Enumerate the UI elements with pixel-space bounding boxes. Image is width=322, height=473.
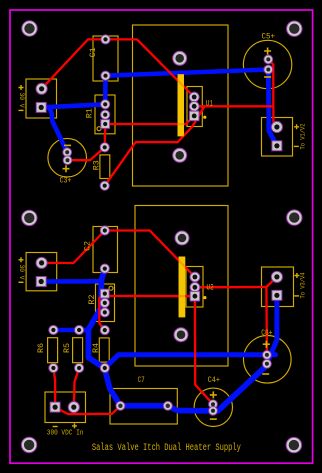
capacitor C2 outline (93, 227, 118, 273)
svg-text:C4+: C4+ (208, 375, 220, 385)
heatsink bar U1 (178, 74, 185, 136)
pad V1V2 pin+ (271, 121, 282, 132)
svg-text:30 V: 30 V (18, 93, 25, 108)
pad R4 bottom (100, 363, 109, 372)
svg-text:R5: R5 (62, 343, 72, 353)
pad U1 pin1 (189, 92, 199, 102)
transformer T1 outline (133, 25, 229, 186)
label C3 minus mark (64, 144, 71, 146)
resistor R6 outline (48, 338, 58, 363)
resistor R3 outline (100, 155, 110, 179)
transformer T1 hole lower (173, 148, 187, 162)
wire C2- down through R2 to R4 top junction (88, 269, 121, 406)
resistor R4 outline (99, 338, 109, 362)
wire R2 wiper down to R4 top (99, 294, 105, 331)
transformer T1 hole upper (173, 51, 187, 65)
wire 300VDC- to C7 left (55, 406, 120, 414)
pad R1 pin1 (101, 100, 110, 109)
wire U2 pin2 to V3/V4+ and C6+ (195, 277, 277, 287)
pad R4 top (100, 326, 109, 335)
pad R6 top (49, 325, 58, 334)
label J2 plus (19, 257, 24, 262)
pad U2 pin2 (190, 282, 200, 292)
wire J1- branch to C3+ (49, 108, 67, 153)
wire U1 pin2 to V1/V2+ (194, 106, 277, 127)
wire C4 pad2 to C6 pad2 (213, 364, 267, 411)
connector To V1/V2 outline (262, 118, 293, 157)
svg-text:R1: R1 (85, 108, 95, 118)
svg-text:U2: U2 (207, 283, 214, 293)
pad U2 pin1 (190, 272, 200, 282)
wire V3/V4- down to C6 pad2 (267, 295, 277, 364)
label C5 plus mark (264, 48, 271, 55)
pad C6 pin2 (263, 359, 272, 368)
pad C4 pin1 (209, 400, 218, 409)
svg-text:C7: C7 (138, 375, 145, 385)
wire J1+ to C1+ to U1 pin1 (42, 39, 195, 97)
pad R1 pin2 (101, 110, 110, 119)
label C3 plus mark (63, 165, 70, 172)
svg-text:R3: R3 (92, 160, 102, 170)
pad C3 pin2 (63, 156, 72, 165)
polarity marks drawn as strokes (19, 85, 300, 428)
pad V3V4 pin- square (272, 290, 282, 300)
wire R1 wiper to U1 pin3 (105, 116, 194, 124)
svg-text:R4: R4 (91, 343, 101, 353)
connector J2 30V outline (26, 253, 57, 291)
pin1 mark R2 (109, 286, 113, 290)
svg-text:U1: U1 (206, 99, 213, 109)
svg-text:To V3/V4: To V3/V4 (299, 272, 306, 298)
svg-text:C1: C1 (88, 47, 98, 57)
IC U2 outline (186, 267, 203, 308)
pin1 dot U2 (203, 296, 206, 299)
trimmer R1 outline (95, 95, 115, 134)
pad R5 bottom (75, 363, 84, 372)
svg-text:R6: R6 (36, 343, 46, 353)
pad U2 pin3 square (190, 291, 200, 301)
svg-text:C3+: C3+ (60, 175, 72, 185)
mounting hole mid-left (22, 210, 37, 225)
connector 300VDC outline (45, 392, 86, 423)
label 300VDC minus (53, 426, 58, 428)
wire J1- to R1 pad1 (41, 104, 105, 107)
capacitor C5 outline (243, 40, 291, 88)
capacitor C3 outline (48, 138, 87, 177)
mounting hole bottom-right (286, 437, 301, 452)
pin1 mark R1 (97, 127, 101, 131)
pad C2 pin1 (100, 226, 109, 235)
pad R3 bottom (100, 181, 109, 190)
svg-text:C5+: C5+ (262, 32, 276, 42)
pad U1 pin3 square (189, 111, 199, 121)
pad 300VDC+ (68, 402, 79, 413)
svg-text:Salas Valve Itch Dual Heater S: Salas Valve Itch Dual Heater Supply (92, 442, 241, 454)
pad C1 pin1 (101, 35, 110, 44)
mounting hole top-left (22, 21, 37, 36)
transformer T2 hole lower (174, 328, 188, 342)
pad R6 bottom (49, 363, 58, 372)
pad R1 pin3 square (101, 120, 110, 129)
pad J2 pin- square (36, 277, 46, 287)
wire R6/R5 top pads row (53, 328, 88, 333)
label C6 minus mark (262, 373, 269, 375)
heatsink bar U2 (179, 257, 186, 318)
label 300VDC plus (72, 423, 77, 428)
heatsink bar U2 (translucent over copper) (179, 257, 186, 318)
label J1 minus (19, 109, 24, 111)
pad C7 right (163, 401, 172, 410)
svg-text:To V1/V2: To V1/V2 (299, 123, 306, 149)
wire C5 pad2 down to V1/V2- (268, 70, 277, 146)
pin1 dot U1 (203, 116, 206, 119)
pad J1 pin- square (36, 102, 46, 112)
pad V1V2 pin- square (272, 141, 282, 151)
wire R5 bottom to 300VDC+ (74, 368, 79, 407)
wire C1- to C5 pad2 (106, 70, 269, 76)
wire C5+ to output net (268, 59, 273, 106)
pad C3 pin1 (63, 148, 72, 157)
pad R2 pin1 (100, 308, 109, 317)
pad C7 left (116, 401, 125, 410)
capacitor C1 outline (93, 36, 118, 81)
pad J2 pin+ (36, 257, 47, 268)
wire R3 bottom to U1 pin2 net (105, 106, 205, 185)
connector To V3/V4 outline (262, 267, 294, 307)
pad R3 top (100, 143, 109, 152)
wire C2+ to U2 pin1 (105, 231, 195, 278)
label V3V4 plus (294, 273, 299, 278)
svg-text:C2: C2 (83, 241, 93, 251)
wire C7 left to C4 pad2 (120, 406, 213, 411)
pad R2 pin2 (100, 298, 109, 307)
label J2 minus (19, 281, 24, 283)
heatsink bar U1 (translucent over copper) (178, 74, 185, 136)
capacitor C6 outline (243, 336, 291, 384)
label C4 minus mark (210, 418, 217, 420)
pad J1 pin+ (36, 83, 47, 94)
transformer T2 hole upper (175, 231, 189, 245)
label C5 minus mark (264, 76, 271, 78)
pad U1 pin2 (189, 101, 199, 111)
svg-text:R2: R2 (87, 295, 97, 305)
wire R2 wiper to U2 pin3 (105, 294, 195, 297)
svg-text:C6+: C6+ (261, 328, 272, 338)
label C4 plus mark (210, 391, 217, 398)
svg-text:30 V: 30 V (18, 265, 25, 280)
pad V3V4 pin+ (271, 271, 282, 282)
mounting hole bottom-left (21, 437, 36, 452)
label V1V2 plus (294, 124, 299, 129)
resistor R5 outline (73, 338, 83, 363)
wire R4 bottom to C6 horizontal (105, 355, 276, 369)
pad C1 pin2 (101, 71, 110, 80)
pad 300VDC- square (50, 402, 60, 412)
mounting hole top-right (287, 21, 302, 36)
pad C2 pin2 (100, 264, 109, 273)
connector J1 30V outline (26, 79, 57, 118)
trimmer R2 outline (96, 284, 115, 322)
capacitor C7 outline (110, 389, 177, 425)
pad C6 pin1 (263, 351, 272, 360)
capacitor C4 outline (194, 388, 232, 426)
pad R2 pin3 square (100, 289, 109, 298)
pad C5 pin1 (264, 55, 273, 64)
wire R3 top to C3- (68, 147, 105, 160)
label J1 plus (19, 85, 24, 90)
wire R6 bottom to 300VDC- (53, 368, 55, 407)
pad C5 pin2 (264, 65, 273, 74)
label V1V2 minus (294, 145, 299, 147)
pad C4 pin2 (209, 406, 218, 415)
wire J2+ to C2+ (42, 231, 105, 264)
pad R5 top (75, 325, 84, 334)
label C6 plus mark (263, 341, 270, 348)
wire J2- to blue junction (41, 279, 99, 284)
IC U1 outline (187, 87, 202, 127)
label V3V4 minus (294, 295, 299, 297)
transformer T2 outline (135, 206, 228, 367)
wire U2 pin3 down to C4+ (195, 296, 213, 404)
wire R1 wiper down to R3 top (104, 124, 107, 147)
wire V3/V4 elbow down to C6+ (265, 287, 268, 355)
svg-text:300 VDC In: 300 VDC In (47, 429, 84, 437)
mounting hole mid-right (287, 210, 302, 225)
wire C1- down to R1 pad1 (103, 76, 108, 105)
